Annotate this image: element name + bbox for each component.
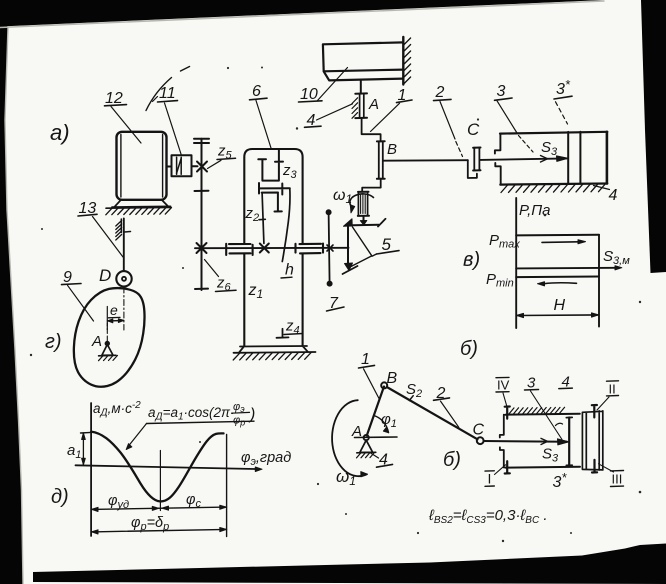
dimension phi_ud / phi_c bbox=[91, 507, 226, 509]
shaft coupling to z5 bbox=[192, 165, 198, 167]
a1 dimension bbox=[81, 431, 92, 434]
return stroke arrow bbox=[544, 282, 577, 285]
svg-text:а): а) bbox=[50, 120, 70, 145]
svg-text:1: 1 bbox=[361, 351, 370, 368]
S2 mass center tick bbox=[409, 396, 413, 401]
svg-text:в): в) bbox=[463, 249, 480, 271]
crank bearing with hatching bbox=[358, 192, 369, 216]
svg-text:6: 6 bbox=[252, 83, 261, 100]
scan artifact: top black band bbox=[0, 0, 604, 27]
bevel tooth wedge top-left bbox=[344, 219, 353, 227]
curve center line bbox=[159, 451, 161, 511]
svg-text:г): г) bbox=[45, 331, 62, 353]
svg-text:φэ,град: φэ,град bbox=[241, 450, 291, 468]
svg-text:A: A bbox=[91, 333, 102, 350]
bevel gear assembly 5: top bar bbox=[347, 224, 379, 227]
small x at shaft 7 crossing bbox=[327, 245, 333, 251]
spring hatching on shaft 13 bbox=[116, 221, 122, 241]
phi axis bbox=[76, 465, 257, 469]
Pmax line bbox=[516, 234, 599, 237]
angle phi1 arc bbox=[374, 416, 389, 433]
forward stroke arrow bbox=[542, 241, 579, 244]
svg-text:C: C bbox=[467, 120, 480, 139]
piston rod B to C bbox=[383, 159, 468, 162]
motor M (12) body bbox=[117, 132, 167, 200]
wall hatching above cylinder bbox=[509, 407, 565, 414]
bearing top (double bars) bbox=[194, 138, 209, 140]
piston (link 3) bbox=[556, 423, 563, 425]
roller D bbox=[116, 271, 131, 286]
crank pivot A bbox=[364, 435, 369, 440]
horizontal reference line bbox=[355, 436, 398, 439]
svg-text:): ) bbox=[248, 406, 255, 423]
svg-text:В: В bbox=[387, 370, 398, 387]
main gear shaft bbox=[195, 247, 349, 249]
crank 1 (link AB) bbox=[367, 387, 384, 436]
pivot support triangle with hatching bbox=[360, 440, 373, 452]
bearing tick bbox=[195, 190, 209, 192]
rod-side chamber block bbox=[582, 411, 603, 470]
svg-text:IV: IV bbox=[497, 378, 510, 393]
motor ground hatching bbox=[106, 207, 171, 210]
right sleeve gear (straddling right wall) bbox=[296, 244, 324, 254]
gear z2 block (lower U) bbox=[262, 193, 282, 212]
vertical link to main shaft with z2 tick bbox=[259, 193, 265, 244]
gear z3 pair (upper U) bbox=[258, 149, 283, 181]
rod C to piston with S3 arrows bbox=[484, 440, 567, 443]
omega1 rotation arc bbox=[332, 400, 367, 476]
paper edge shadow top bbox=[0, 1, 604, 28]
gear z5 mesh X bbox=[197, 162, 207, 172]
paper edge shadow left bbox=[5, 27, 23, 584]
formula underline and leader arrow to curve bbox=[147, 421, 255, 423]
joint C bbox=[477, 437, 484, 444]
svg-text:C: C bbox=[473, 422, 485, 439]
crankshaft link from slider B bbox=[362, 179, 381, 192]
svg-text:3: 3 bbox=[497, 83, 506, 100]
svg-text:В: В bbox=[387, 141, 397, 158]
shaft motor to coupling bbox=[167, 166, 172, 168]
right boundary line bbox=[226, 435, 228, 537]
tank fixed wall with hatching bbox=[402, 37, 404, 85]
svg-text:H: H bbox=[554, 297, 566, 314]
gear mesh X inside box bbox=[260, 244, 269, 253]
svg-text:I: I bbox=[488, 471, 492, 487]
tank 10 bbox=[323, 42, 403, 80]
svg-text:д): д) bbox=[51, 486, 69, 508]
eccentricity e dimension bbox=[106, 307, 108, 330]
connecting rod 2 (link BC) bbox=[387, 387, 478, 439]
pipe from tank bbox=[360, 80, 362, 93]
scan noise specks bbox=[296, 127, 298, 129]
spring-damper A bbox=[355, 93, 367, 118]
svg-text:e: e bbox=[110, 302, 118, 318]
bevel cone edges bbox=[350, 227, 372, 267]
crankshaft lower stub and bevel tooth bbox=[363, 216, 365, 221]
rotation arc arrow around crankshaft bbox=[350, 194, 374, 207]
coupling 11 box bbox=[172, 155, 192, 176]
acceleration cosine curve bbox=[91, 432, 223, 502]
scan artifact: left black wedge bbox=[0, 18, 23, 584]
dimension phi_p = delta_p bbox=[91, 529, 226, 532]
gearbox base and ground bbox=[234, 346, 316, 353]
shaft 7 with end joints bbox=[329, 212, 330, 283]
right boundary line bbox=[598, 235, 600, 327]
cam-roller contact dash-dot axis bbox=[123, 287, 125, 330]
svg-text:2: 2 bbox=[435, 84, 445, 101]
svg-text:5: 5 bbox=[382, 235, 392, 254]
scan artifact: bottom black strip bbox=[33, 544, 666, 584]
rod C to cylinder piston with S3 arrow bbox=[481, 158, 568, 160]
scan artifact: right black bar bbox=[641, 0, 666, 273]
svg-text:III: III bbox=[612, 472, 623, 487]
svg-text:A: A bbox=[368, 96, 379, 113]
intermediate shaft with bearings bbox=[259, 183, 290, 195]
svg-text:D: D bbox=[99, 266, 111, 285]
cam 9 profile bbox=[74, 288, 145, 387]
H dimension bbox=[517, 314, 598, 317]
svg-text:б): б) bbox=[443, 449, 461, 471]
follower shaft 13 bbox=[123, 219, 125, 271]
pencil flourish above 11 bbox=[146, 78, 172, 111]
svg-text:h: h bbox=[285, 262, 294, 279]
svg-text:II: II bbox=[609, 382, 616, 397]
gearbox frame (6) bbox=[244, 149, 302, 346]
input vertical shaft I bbox=[201, 139, 203, 290]
measuring clamps I-IV bbox=[505, 407, 510, 419]
cylinder ground hatching bbox=[501, 184, 606, 193]
gear z6 mesh X bbox=[197, 243, 207, 253]
slider B piston bbox=[377, 141, 385, 179]
svg-text:P,Па: P,Па bbox=[519, 202, 550, 219]
svg-text:б): б) bbox=[460, 338, 478, 360]
P axis bbox=[515, 198, 517, 328]
aD axis bbox=[90, 403, 92, 536]
cylinder 3 (scheme b) body bbox=[505, 414, 580, 468]
bevel vertical shaft bbox=[347, 226, 349, 267]
motor foot bbox=[112, 200, 171, 208]
slider C guide bracket bbox=[468, 160, 477, 178]
bevel tooth wedge bottom bbox=[345, 263, 353, 271]
carrier arm h bbox=[282, 188, 290, 261]
link spring to slider B bbox=[362, 118, 381, 141]
slider C piston bbox=[473, 148, 480, 171]
Pmin line bbox=[516, 276, 599, 279]
gear z1 sleeve (left, straddling wall) bbox=[226, 244, 252, 255]
svg-text:11: 11 bbox=[159, 85, 176, 102]
bevel tooth tick right bbox=[378, 219, 386, 227]
shaft I bottom tick bbox=[195, 288, 208, 290]
joint B bbox=[381, 382, 387, 388]
cylinder piston (link 3) bbox=[568, 132, 580, 184]
S3 axis bbox=[516, 267, 616, 270]
cylinder 3 body bbox=[500, 132, 607, 185]
